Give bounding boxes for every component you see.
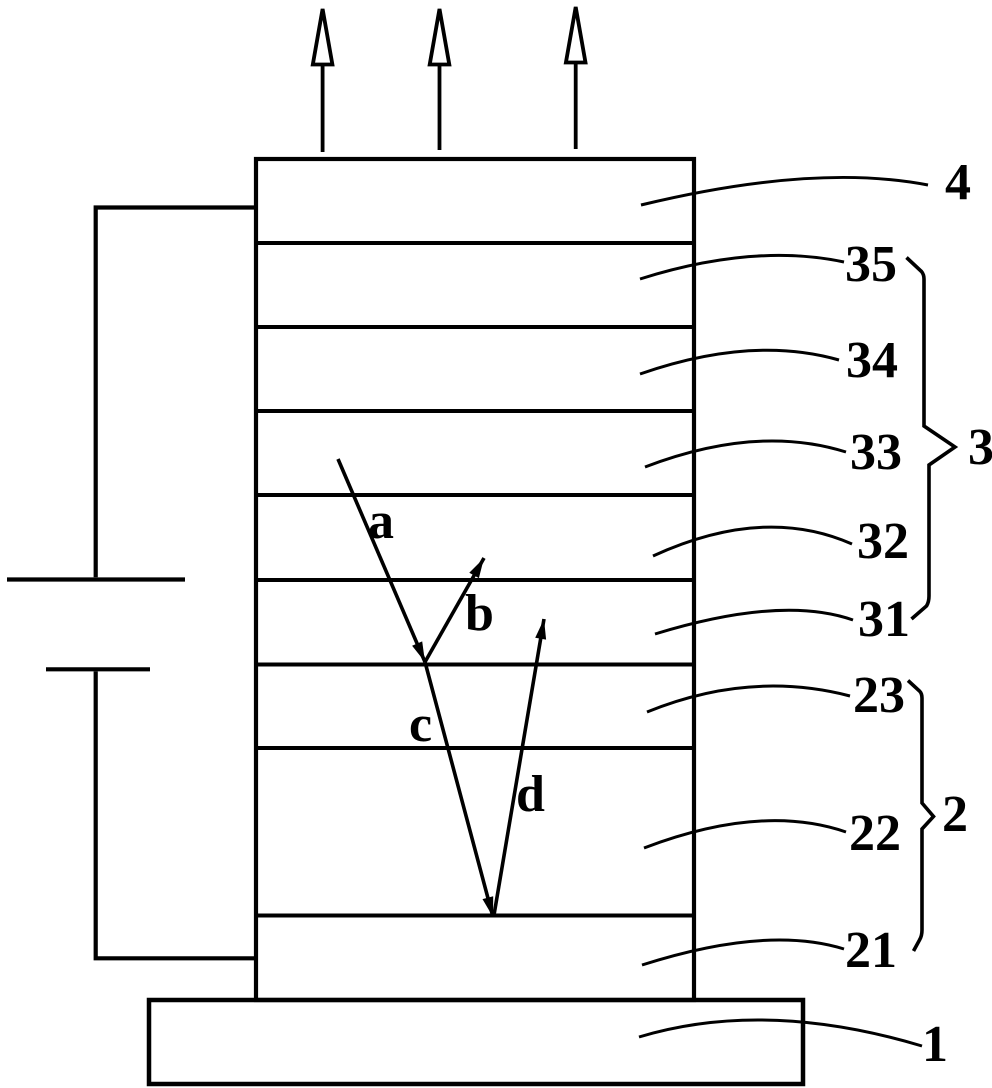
light output arrow right [566,7,586,149]
wire from battery to bottom electrode [96,672,256,959]
svg-text:b: b [465,585,494,642]
svg-text:31: 31 [858,591,910,648]
svg-text:c: c [409,696,432,753]
layer boundary 31/23 [256,663,694,667]
svg-text:34: 34 [846,332,898,389]
light ray b (reflected up) [425,558,484,662]
svg-text:21: 21 [845,922,897,979]
svg-text:2: 2 [942,786,968,843]
leader line 34 [640,350,839,374]
light ray d (reflected back up) [494,619,546,915]
leader line 4 [641,177,928,205]
layer boundary 23/22 [256,746,694,750]
layer boundary 32/31 [256,578,694,582]
svg-text:d: d [516,766,545,823]
substrate 1 [149,1000,803,1084]
brace group 3 (layers 31-35) [907,258,956,620]
svg-text:32: 32 [857,513,909,570]
layer boundary 33/32 [256,493,694,497]
leader line 33 [645,441,846,467]
leader line 22 [644,821,846,848]
layer boundary 4/35 [256,241,694,245]
svg-text:23: 23 [853,667,905,724]
battery long plate (positive terminal) [7,577,185,581]
battery short plate (negative terminal) [46,667,150,671]
svg-text:4: 4 [945,154,971,211]
svg-text:1: 1 [922,1016,948,1073]
light ray c (transmitted down) [425,662,493,917]
wire from top electrode to battery [96,208,256,578]
leader line 1 [639,1020,922,1046]
layer boundary 34/33 [256,409,694,413]
brace group 2 (layers 21-23) [908,681,934,952]
svg-text:a: a [368,493,394,550]
layer boundary 35/34 [256,325,694,329]
leader line 23 [647,686,850,712]
svg-text:3: 3 [968,419,992,476]
light ray a (incident) [338,459,425,662]
leader line 31 [655,610,853,634]
layer boundary 22/21 [256,914,694,918]
svg-text:22: 22 [849,805,901,862]
svg-text:35: 35 [845,236,897,293]
leader line 21 [642,940,844,965]
leader line 35 [640,255,844,279]
light output arrow left [313,9,333,152]
light output arrow middle [430,9,450,150]
svg-text:33: 33 [850,424,902,481]
leader line 32 [653,527,852,556]
device stack outline (cathode 4 to layer 21) [256,159,694,1000]
